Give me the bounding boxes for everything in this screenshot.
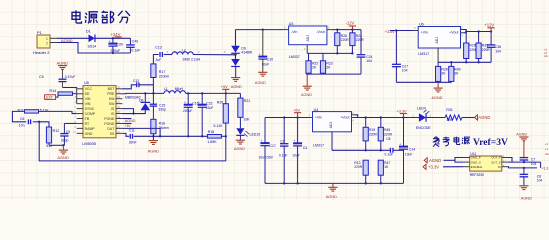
net label AGND to U11 [424,158,427,163]
svg-text:AG: AG [544,54,548,58]
capacitor C6 10n [28,119,30,124]
resistor R22 2K [308,53,310,60]
svg-text:ADJ: ADJ [329,121,333,128]
wire P1 pin1 to D1 [57,37,89,39]
svg-text:220R: 220R [354,165,363,169]
svg-text:-Vin: -Vin [291,30,297,34]
svg-text:AGND: AGND [301,93,312,97]
left AGND drop wire + bottom rail [39,122,226,161]
capacitor C7 104 [520,158,529,160]
svg-text:1: 1 [46,37,48,41]
svg-text:OUT_S: OUT_S [491,160,501,164]
wire IS pins to D8 anode [122,109,133,114]
U4 ADJ rail [331,132,333,151]
svg-text:AGND: AGND [432,96,443,100]
resistor R26 220R [336,30,338,33]
svg-text:10n: 10n [19,124,25,128]
svg-text:C36: C36 [495,45,501,49]
wire VCC-SD-VIN tie [76,89,78,104]
svg-text:SW: SW [109,97,115,101]
svg-text:2: 2 [46,42,48,46]
wire R31 to AGND label [462,117,475,119]
resistor R20 5.11K [225,93,227,103]
svg-text:P1: P1 [37,31,42,35]
resistor R19 220R [365,118,367,128]
tiny red text right edge bottom [545,142,549,156]
svg-text:220R: 220R [384,132,393,136]
capacitor 0.1uF on ADJ rail [390,148,393,153]
svg-text:220uF: 220uF [111,49,121,53]
wire R11 to COMP pin [39,111,77,113]
svg-text:R17: R17 [159,70,166,74]
svg-text:+3.3V: +3.3V [397,109,407,113]
net label AGND on PGND pin [122,118,131,120]
svg-text:2K: 2K [441,71,446,75]
capacitor C12 bootstrap [122,85,136,89]
svg-text:U5: U5 [84,81,89,85]
svg-text:R20: R20 [217,100,223,104]
svg-text:SS14: SS14 [88,45,97,49]
svg-text:+Vin: +Vin [315,115,322,119]
svg-text:10K: 10K [446,118,453,122]
svg-text:22uF: 22uF [206,106,214,110]
svg-text:+5V: +5V [125,124,132,128]
svg-text:AGND: AGND [255,81,266,85]
svg-text:+12V: +12V [484,23,494,28]
svg-text:C17: C17 [270,144,276,148]
svg-text:+Vout: +Vout [340,115,349,119]
svg-text:AGND: AGND [148,149,160,154]
svg-text:2K: 2K [454,71,459,75]
resistor R45 220R [380,118,382,128]
resistor R30 220R [478,32,480,44]
svg-text:LED4: LED4 [417,107,426,111]
svg-text:C12: C12 [133,79,139,83]
svg-text:AGND: AGND [326,195,337,199]
+5V input rail to U4 [265,117,308,119]
svg-text:C2: C2 [280,140,284,144]
ground AGND below R12 C9 [62,144,64,146]
svg-text:VIN: VIN [85,102,91,106]
capacitor C6 104 [523,168,525,174]
capacitor C16 220uF [187,93,189,104]
svg-text:1.65K: 1.65K [207,140,217,144]
ground AGND below LED10 [239,136,241,140]
svg-text:39nF: 39nF [129,141,137,145]
wire L2 to D9 mid node [193,54,235,56]
resistor R47 1K [378,160,383,175]
svg-text:BST: BST [108,87,116,91]
svg-text:330p: 330p [158,107,166,111]
ground AGND below C6 [519,186,528,190]
svg-text:LED10: LED10 [250,132,261,136]
svg-text:5.11K: 5.11K [214,124,224,128]
svg-text:C11: C11 [129,129,135,133]
svg-text:220R: 220R [482,48,491,52]
svg-text:D1: D1 [86,30,91,34]
port EXT [45,95,56,100]
wire to +3.3V right edge [540,162,542,168]
U3 ground rail [306,73,361,75]
svg-text:+: + [293,139,295,143]
svg-text:+3.3: +3.3 [541,167,548,171]
title 电源部分 (power section) [72,10,82,23]
svg-text:Header 2: Header 2 [33,50,50,55]
ground AGND below U6 divider [437,82,439,87]
capacitor C40 0.1uF [129,38,131,45]
wire U3 output to -12V [327,29,332,31]
net label +3.3V to U11 ENABLE [423,164,426,169]
svg-text:+: + [198,101,200,105]
wire D9 top rail to U3 [236,29,284,31]
wire D1 cathode to +24V rail [95,37,130,39]
svg-text:R11: R11 [18,109,24,113]
svg-text:0.1uF: 0.1uF [279,153,287,157]
svg-text:AGND: AGND [429,158,441,163]
svg-text:L2: L2 [182,48,186,52]
svg-text:R14: R14 [50,89,57,93]
resistor R18 1.65K [207,135,221,139]
wire junction to R12 [39,122,49,127]
svg-text:PGND: PGND [104,122,115,126]
svg-text:C9: C9 [66,130,70,134]
svg-text:OUT: OUT [107,127,115,131]
svg-text:4148W: 4148W [241,51,253,55]
svg-text:+5V: +5V [221,85,228,89]
svg-text:+Vout: +Vout [449,30,458,34]
net label AGND arrow right of R31 [475,115,478,120]
svg-text:Vref=3V: Vref=3V [473,137,508,148]
resistor R21 10K [239,93,241,98]
svg-text:10K: 10K [243,118,250,122]
wire C5 to VCC pin [63,88,77,89]
wire C6 to junction [33,121,39,123]
wire PRE pin to L1 rail [122,92,164,94]
svg-text:C7: C7 [531,158,535,162]
svg-text:REF3230: REF3230 [470,173,484,177]
svg-text:0.1uF: 0.1uF [385,153,393,157]
svg-text:1K: 1K [384,165,389,169]
inductor L2 SMD 2.2uH [164,54,172,56]
svg-text:R45: R45 [384,128,390,132]
capacitor C39 220uF [112,37,114,39]
svg-text:104: 104 [495,49,501,53]
svg-text:PGND: PGND [104,117,115,121]
svg-text:220R: 220R [341,38,350,42]
svg-text:10uF: 10uF [292,153,300,157]
svg-text:C5: C5 [39,75,44,79]
svg-text:R31: R31 [446,108,452,112]
ground AGND below U3 divider [306,74,308,86]
wire P1 pin2 down to cap bottom rail [57,43,130,54]
svg-text:+3.3V: +3.3V [428,164,439,169]
svg-text:220R: 220R [369,132,378,136]
svg-text:SYNC: SYNC [85,107,95,111]
svg-text:VCC: VCC [85,87,93,91]
svg-text:AGND: AGND [57,60,69,65]
svg-text:10uF: 10uF [405,153,413,157]
svg-text:-12V: -12V [346,21,355,26]
svg-text:-Vout: -Vout [316,30,324,34]
svg-text:GND_F: GND_F [471,156,481,160]
capacitor C2 0.1uF [283,118,285,144]
capacitor C36 104 [490,32,492,45]
svg-text:GND_S: GND_S [471,160,481,164]
svg-text:C39: C39 [116,42,123,46]
capacitor C22 22uF [201,93,203,104]
svg-text:LM337: LM337 [289,55,300,59]
ground AGND below R16 [149,141,158,145]
svg-text:10uF/35V: 10uF/35V [259,156,274,160]
U3 ADJ rail [306,45,308,54]
U4 output rail +3.3V [352,114,355,116]
svg-text:C6: C6 [20,117,24,121]
svg-text:0.1uF: 0.1uF [131,48,140,52]
svg-text:+24V: +24V [111,32,121,37]
FB rail wire [134,135,208,137]
svg-text:104: 104 [366,59,372,63]
capacitor C17 10uF/35V [264,118,266,143]
svg-text:AGND: AGND [516,132,527,136]
svg-text:220R: 220R [356,38,365,42]
svg-text:LM317: LM317 [313,143,324,147]
resistor R23 2K [322,53,324,60]
wire U11 outputs [508,158,512,163]
resistor R12 51K [46,127,51,143]
capacitor C24 104 [360,30,362,55]
capacitor C10 10uF [262,28,264,30]
wire OUT pin to FB rail [122,128,160,136]
svg-text:PRE: PRE [107,92,115,96]
svg-text:2K: 2K [312,65,317,69]
svg-text:+: + [109,39,111,43]
svg-text:R18: R18 [208,130,214,134]
resistor R24 220R [351,30,353,33]
resistor R17 22ohm [151,64,156,78]
diode D9 4148W dual [235,30,237,46]
svg-text:+: + [399,142,401,146]
capacitor C15 330p [152,93,154,104]
capacitor C14 10uF [403,118,405,147]
svg-text:R19: R19 [369,128,375,132]
svg-text:AGND: AGND [478,115,490,120]
svg-text:2K: 2K [326,65,331,69]
resistor R28 2K [437,62,439,66]
svg-text:+24V: +24V [385,29,395,34]
resistor R29 220R [465,32,467,44]
svg-text:SMD 2.2uH: SMD 2.2uH [183,58,201,62]
svg-text:R12: R12 [53,129,60,133]
svg-text:C10: C10 [267,58,273,62]
ground AGND below C10 [258,72,267,76]
+5V rail after L1 [186,92,241,94]
svg-text:+: + [261,139,263,143]
U6 output rail to +12V [461,29,464,31]
svg-text:C8: C8 [386,137,390,141]
wire U11 IN pin to C6 [508,167,537,168]
svg-text:ADJ: ADJ [306,35,310,42]
svg-text:RAMP: RAMP [85,127,96,131]
svg-text:VIN: VIN [85,97,91,101]
svg-text:U3: U3 [289,22,294,26]
svg-text:C14: C14 [409,148,415,152]
svg-text:5.11K: 5.11K [40,109,50,113]
net label +5V on PGND2 pin [122,122,131,124]
svg-text:OUT_F: OUT_F [491,156,501,160]
svg-text:C13: C13 [155,46,162,50]
U6 ADJ rail [437,48,439,62]
svg-text:+Vin: +Vin [421,30,428,34]
tiny red text right edge top [544,48,548,59]
svg-text:LM317: LM317 [418,52,429,56]
svg-text:AGND: AGND [231,85,242,89]
svg-text:SW: SW [109,102,115,106]
ground AGND on bottom rail [332,183,334,187]
svg-text:AGND: AGND [234,147,245,151]
svg-text:FB: FB [85,117,90,121]
resistor R16 36ohm [152,106,154,119]
svg-text:2uF: 2uF [156,58,162,62]
resistor R49 2K [450,61,452,63]
capacitor C27 104 [395,29,397,31]
title 参考电源 Vref=3V [433,137,440,147]
svg-text:AG: AG [545,152,549,156]
svg-text:R21: R21 [244,99,250,103]
svg-text:AGND: AGND [521,196,532,200]
svg-text:IN: IN [498,165,501,169]
LED LED10 [239,117,241,128]
svg-text:EXT: EXT [46,96,54,100]
svg-text:ADJ: ADJ [435,37,439,44]
svg-text:SD: SD [85,92,90,96]
svg-text:SS: SS [110,132,115,136]
svg-text:104: 104 [402,69,408,73]
svg-text:+: + [259,52,261,56]
svg-text:+: + [184,101,186,105]
svg-text:ENCODE: ENCODE [416,126,432,130]
svg-text:22ohm: 22ohm [159,74,170,78]
bottom ground rail [265,182,404,184]
svg-text:COMP: COMP [85,112,96,116]
svg-text:220uF: 220uF [183,109,192,113]
capacitor C11 39nF on SS pin [122,133,129,136]
resistor R13 220R [363,160,368,175]
svg-text:AGND: AGND [125,119,136,123]
svg-text:+5V: +5V [293,109,300,113]
capacitor C3 10uF [297,118,299,144]
svg-text:LM5005: LM5005 [82,142,96,146]
capacitor C9 330p [63,123,65,133]
svg-text:R29: R29 [469,43,475,47]
svg-text:C40: C40 [132,39,139,43]
svg-text:ENABLE: ENABLE [471,165,482,169]
wire R11 left to C6 [12,111,26,121]
svg-text:C3: C3 [303,146,307,150]
svg-text:AGND: AGND [57,155,69,160]
svg-text:GND: GND [85,132,93,136]
U6 ground rail [396,81,451,83]
wire R12 C9 bottoms [48,143,50,145]
svg-text:104: 104 [537,179,543,183]
